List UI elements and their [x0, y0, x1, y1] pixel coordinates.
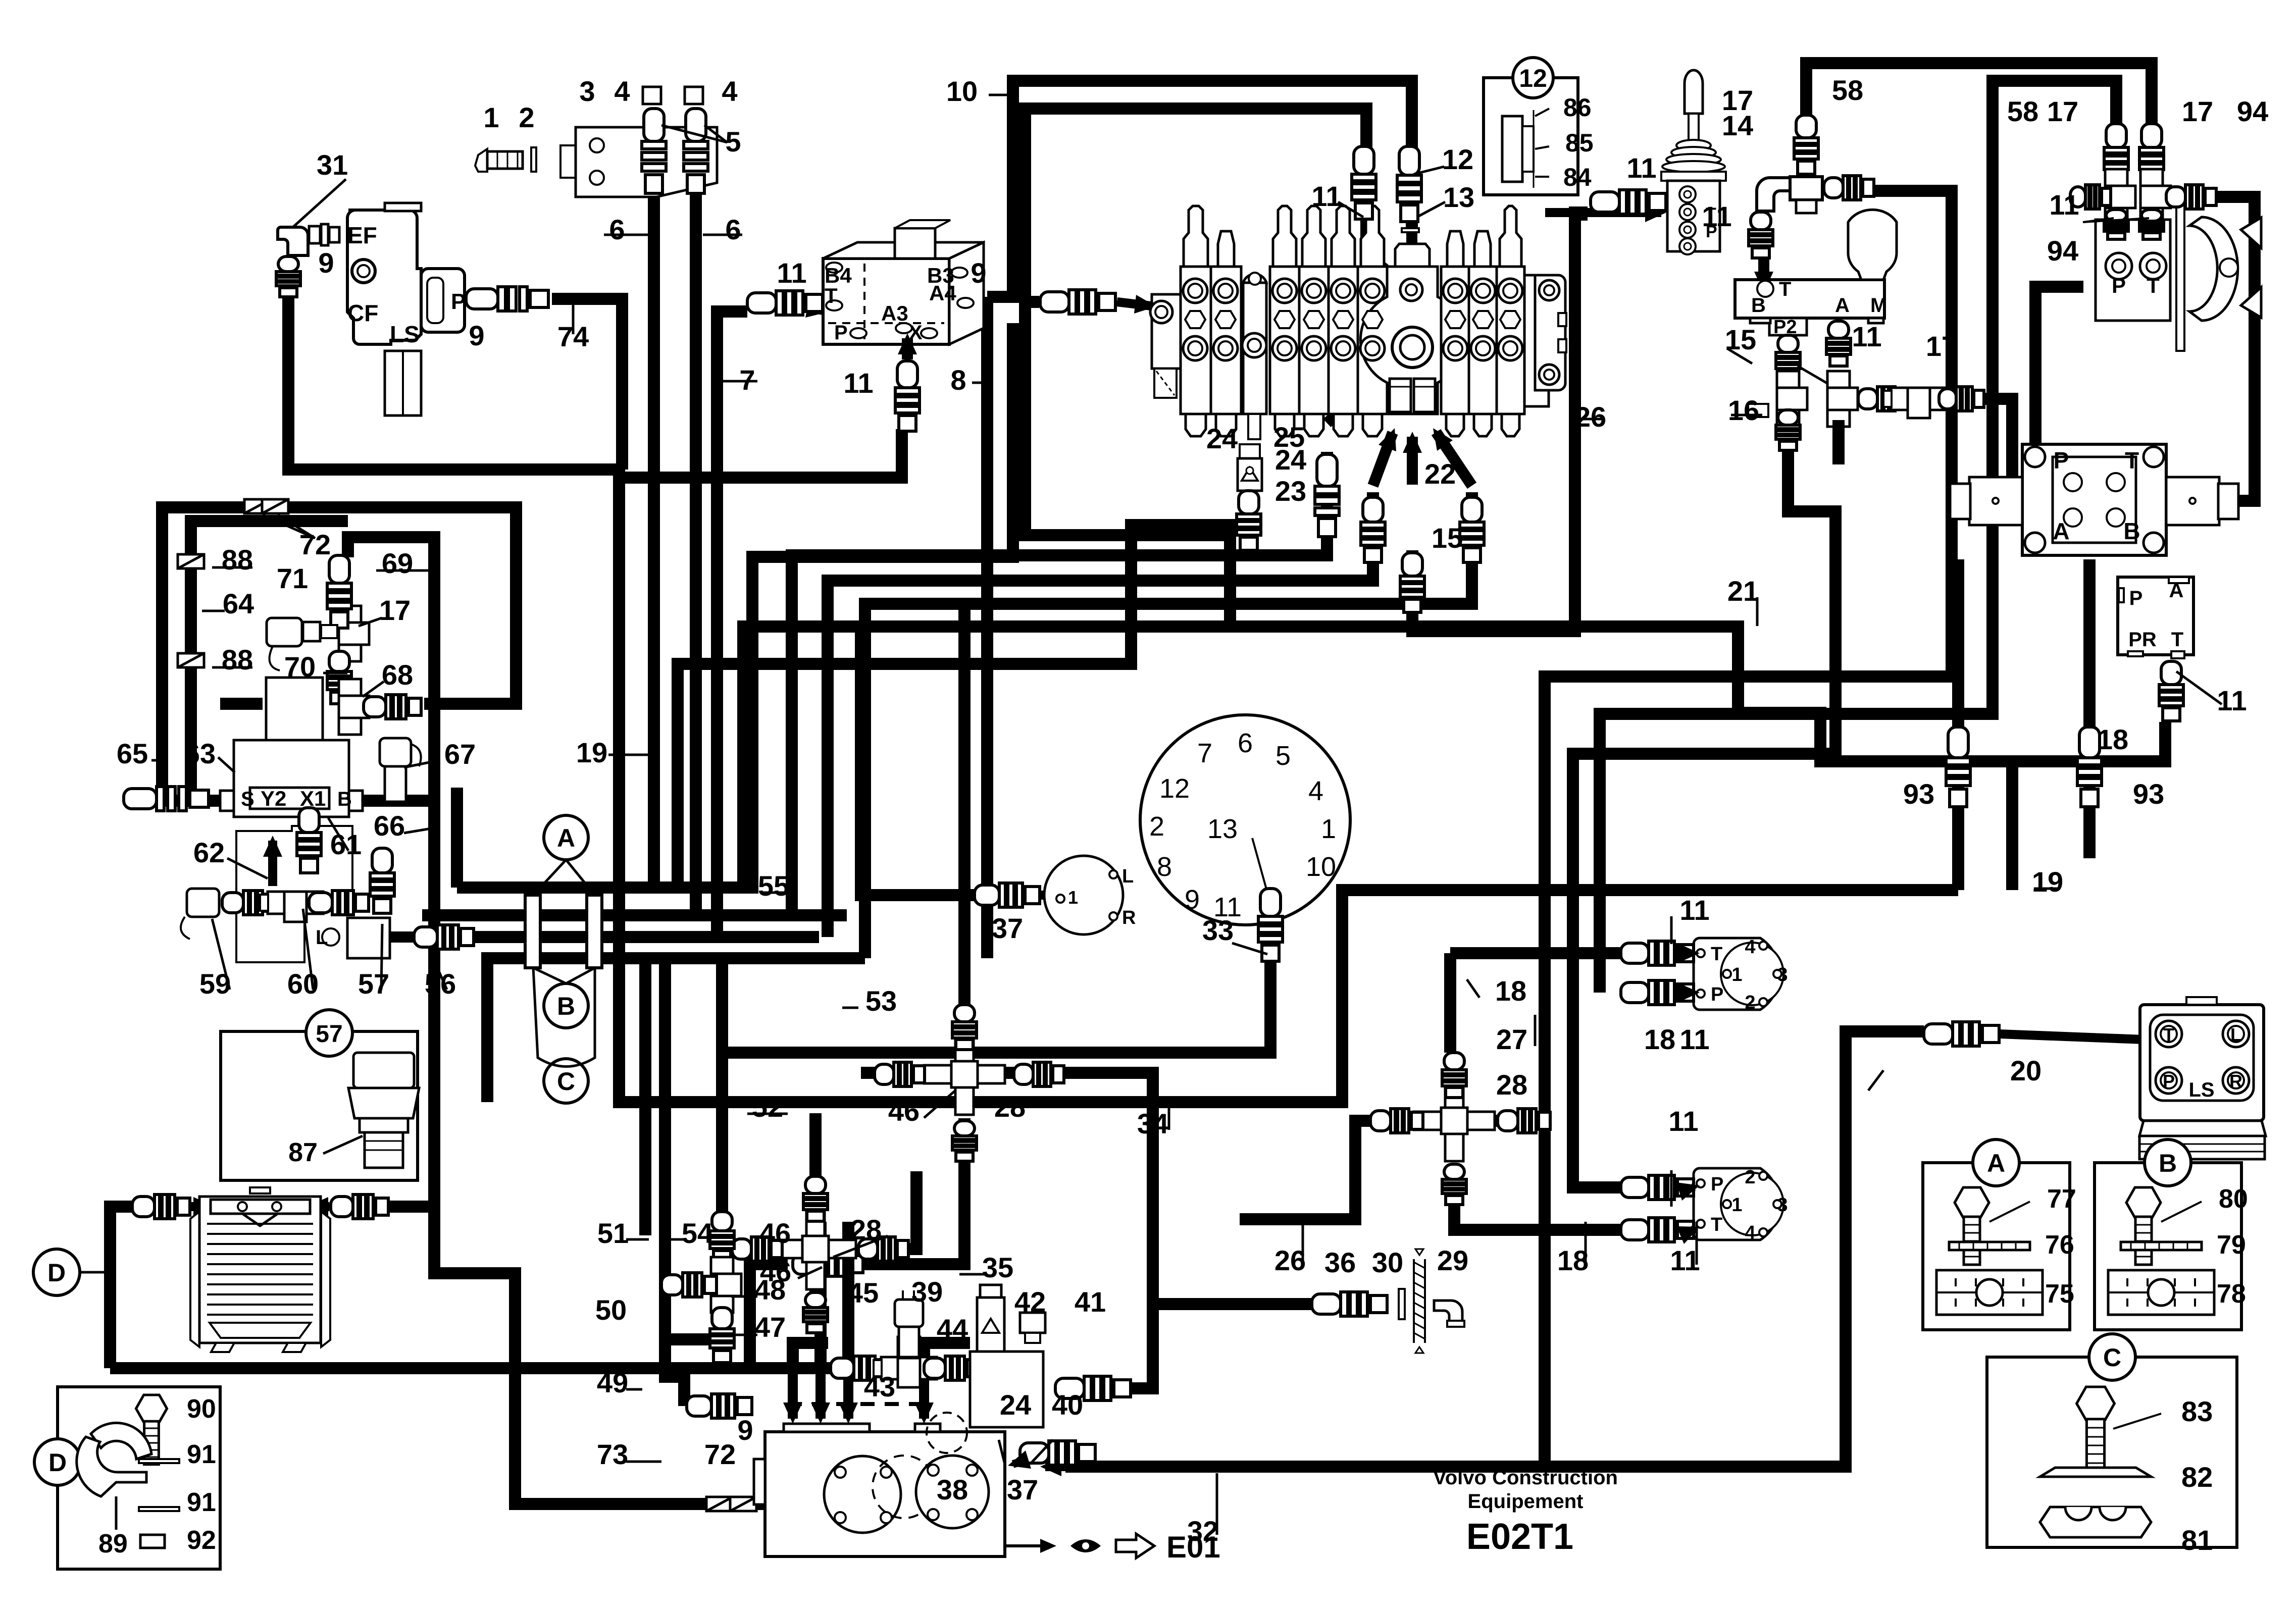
svg-text:93: 93 [1903, 778, 1934, 810]
wire hose 65 loop left [162, 507, 516, 801]
svg-text:69: 69 [382, 547, 413, 579]
wall hatch [1414, 1249, 1425, 1353]
svg-text:73: 73 [597, 1438, 628, 1470]
arrow feeder x1680 [843, 1363, 853, 1419]
gauge clock legend [1140, 715, 1350, 925]
svg-text:66: 66 [374, 810, 405, 842]
svg-text:24: 24 [1000, 1389, 1031, 1421]
svg-text:34: 34 [1137, 1108, 1168, 1139]
svg-text:11: 11 [777, 257, 806, 289]
accumulator [1848, 210, 1897, 280]
svg-text:S: S [241, 788, 254, 810]
fitting cooler right [331, 1194, 388, 1219]
svg-text:6: 6 [609, 214, 625, 245]
arrow into BTAM T port [1758, 241, 1769, 288]
nut 4 left [643, 87, 661, 104]
wire hose 35 left end [750, 1264, 788, 1368]
svg-text:24: 24 [1275, 444, 1306, 476]
svg-text:26: 26 [1274, 1244, 1306, 1276]
wire hose solenoid X to row [621, 429, 902, 478]
svg-text:76: 76 [2045, 1230, 2074, 1260]
arrow feeder x1830 [919, 1363, 929, 1419]
svg-text:A3: A3 [881, 301, 908, 325]
wire hose 54 [665, 958, 722, 1339]
svg-text:11: 11 [2049, 189, 2079, 221]
fitting 40 [1055, 1376, 1131, 1400]
wire hose 10 upper [987, 81, 1412, 297]
wire hose 10 lower big S [743, 109, 1366, 888]
svg-text:22: 22 [1424, 458, 1456, 490]
svg-text:1: 1 [483, 101, 499, 133]
arrow into X [902, 338, 913, 359]
wire hose 17/94 branch down [1545, 191, 1952, 1467]
svg-text:78: 78 [2217, 1279, 2246, 1309]
svg-text:81: 81 [2181, 1524, 2213, 1556]
wire hose D cooler inlet [110, 1207, 135, 1368]
svg-text:30: 30 [1372, 1247, 1403, 1278]
tee 59/60 assembly [181, 889, 219, 939]
svg-text:46: 46 [759, 1217, 791, 1249]
wire hose 36 branch [1153, 1298, 1313, 1310]
fitting 9 at EF [309, 224, 339, 245]
wire hose 74/31 loop priority-valve P to EF [288, 295, 622, 470]
svg-text:71: 71 [277, 562, 308, 594]
check valve 42 [977, 1285, 1004, 1353]
svg-text:94: 94 [2237, 95, 2268, 127]
svg-text:18: 18 [1644, 1023, 1675, 1055]
svg-text:90: 90 [187, 1394, 216, 1424]
wire hose 44 long return line [110, 1362, 831, 1374]
svg-text:88: 88 [222, 644, 253, 676]
elbow 14 [1757, 178, 1790, 211]
wire hose 33 line from 52 [722, 962, 1270, 1053]
svg-text:L: L [2230, 1024, 2241, 1045]
svg-text:T: T [2163, 1024, 2174, 1045]
svg-text:11: 11 [843, 367, 873, 399]
fitting 9 right [1040, 290, 1115, 314]
svg-text:54: 54 [682, 1217, 713, 1249]
svg-text:50: 50 [595, 1294, 627, 1326]
clamps 72 top [244, 499, 271, 513]
svg-text:35: 35 [982, 1252, 1013, 1283]
arrow 15 under valve [1407, 437, 1418, 485]
svg-text:T: T [2171, 629, 2183, 651]
wire hose 55 and bundle row 1 [457, 323, 1013, 888]
svg-text:87: 87 [288, 1138, 318, 1167]
svg-text:4: 4 [614, 75, 630, 107]
svg-text:1: 1 [1731, 964, 1742, 985]
svg-text:60: 60 [287, 968, 319, 1000]
wire cross2 assembly lines [809, 1113, 822, 1212]
gauge target 37 [1044, 856, 1123, 934]
part 87 sensor [348, 1053, 419, 1168]
svg-text:3: 3 [579, 75, 595, 107]
svg-text:16: 16 [1728, 394, 1759, 426]
svg-text:1: 1 [1321, 814, 1336, 844]
svg-text:58: 58 [2007, 95, 2038, 127]
svg-text:Y2: Y2 [261, 787, 286, 810]
svg-text:29: 29 [1437, 1244, 1468, 1276]
tees 17 above wheel [2104, 124, 2128, 186]
svg-text:77: 77 [2047, 1184, 2076, 1214]
fitting 11 below elbow [1749, 212, 1773, 258]
fitting 61 [297, 808, 321, 873]
svg-text:11: 11 [1679, 1023, 1709, 1055]
svg-text:10: 10 [1306, 852, 1336, 882]
svg-text:52: 52 [752, 1091, 783, 1123]
wire hose 94 wheel left [2035, 287, 2083, 444]
wire hose 21 long line to 18 [1230, 627, 2012, 761]
svg-text:A: A [2053, 518, 2069, 544]
svg-text:12: 12 [1519, 64, 1547, 92]
fitting 12 on drop [1397, 146, 1421, 222]
wire hose 58 supply top [1806, 63, 2152, 129]
label leader lines [293, 179, 346, 227]
svg-text:P: P [2112, 274, 2126, 297]
svg-text:12: 12 [1159, 773, 1190, 804]
svg-text:17: 17 [2047, 95, 2078, 127]
svg-text:6: 6 [1238, 728, 1253, 758]
fitting 68 chain [364, 695, 421, 719]
tee 17 at 58 [1790, 177, 1822, 213]
arrow 62 up [268, 841, 277, 886]
wire hose 93b flushing B [2083, 559, 2096, 858]
wire hose 37 gauge line [861, 627, 975, 895]
svg-text:L: L [1122, 866, 1134, 887]
svg-text:13: 13 [1207, 814, 1238, 844]
svg-text:PR: PR [2128, 629, 2157, 651]
svg-text:55: 55 [758, 870, 789, 902]
svg-text:91: 91 [187, 1440, 216, 1469]
svg-text:58: 58 [1832, 74, 1863, 106]
orbitrol steering unit 20 [2139, 997, 2266, 1159]
fitting 9 at P [466, 287, 548, 311]
svg-text:42: 42 [1014, 1286, 1046, 1318]
wire hose 34 to manifold 40 [1131, 1382, 1153, 1394]
svg-text:44: 44 [937, 1313, 968, 1345]
A B C manifold bundle [525, 895, 540, 968]
fitting cooler left [132, 1194, 190, 1219]
fitting 11 lower servo T [1621, 1218, 1694, 1242]
wire hose 94 frame right [2176, 197, 2255, 501]
wire valve drop 15 to hose 26 [1412, 215, 1588, 631]
fitting 15 chain [1400, 553, 1424, 612]
svg-text:92: 92 [187, 1526, 216, 1555]
svg-text:28: 28 [994, 1091, 1026, 1123]
svg-text:2: 2 [1745, 992, 1755, 1013]
svg-text:18: 18 [2097, 723, 2128, 755]
svg-text:5: 5 [725, 126, 741, 158]
svg-text:11: 11 [1626, 152, 1656, 184]
svg-text:C: C [2103, 1343, 2121, 1372]
fitting 33 [1258, 889, 1283, 961]
wire valve drop 22b row [865, 492, 1472, 958]
wire bundle row L 56/60 [457, 931, 819, 943]
wire hose 58b right [1600, 81, 2116, 993]
inset box D [58, 1387, 220, 1569]
svg-text:B: B [557, 992, 575, 1020]
washer 30 [1399, 1289, 1405, 1319]
svg-text:86: 86 [1563, 93, 1592, 122]
svg-text:89: 89 [98, 1529, 128, 1559]
E01 flow arrow [1005, 1544, 1045, 1547]
svg-text:53: 53 [865, 985, 897, 1017]
svg-text:T: T [825, 284, 838, 307]
tee 68 [339, 679, 369, 735]
main control valve bank [1150, 206, 1566, 439]
svg-text:57: 57 [316, 1021, 342, 1048]
svg-text:7: 7 [1197, 738, 1212, 768]
wire hose 18 steering priority [2012, 722, 2165, 890]
arrow into radiator left [191, 1202, 210, 1211]
svg-text:13: 13 [1443, 181, 1474, 213]
svg-text:1: 1 [1731, 1194, 1742, 1216]
svg-text:11: 11 [1668, 1105, 1698, 1137]
stud fittings 5 [642, 109, 666, 193]
svg-text:70: 70 [284, 651, 316, 683]
fitting 22b chain [1460, 497, 1484, 562]
svg-text:11: 11 [1311, 180, 1341, 212]
svg-text:85: 85 [1565, 129, 1594, 157]
svg-text:17: 17 [2182, 95, 2213, 127]
svg-text:62: 62 [193, 837, 225, 868]
arrow into radiator right [312, 1202, 329, 1211]
svg-text:P: P [2129, 587, 2143, 609]
svg-text:51: 51 [597, 1217, 629, 1249]
arrow hose 20 into orbitrol T [2000, 1034, 2156, 1040]
svg-text:D: D [48, 1448, 67, 1477]
svg-text:37: 37 [1007, 1474, 1038, 1505]
svg-text:Volvo Construction: Volvo Construction [1433, 1467, 1618, 1489]
svg-text:28: 28 [1496, 1069, 1527, 1101]
pump assembly [754, 1413, 1005, 1556]
svg-text:4: 4 [722, 75, 737, 107]
svg-text:83: 83 [2181, 1395, 2213, 1427]
fitting 35 chain [793, 1252, 863, 1276]
svg-text:36: 36 [1324, 1247, 1356, 1278]
wire hose 93a flushing A [1952, 559, 1964, 890]
svg-text:17: 17 [379, 594, 411, 626]
fitting 15 at P2 [1776, 335, 1800, 380]
fitting 70 [327, 651, 351, 704]
arrow feeder x1570 [788, 1363, 798, 1419]
arrow into valve big port [1327, 354, 1401, 423]
arrow into wheel P [2111, 243, 2122, 259]
svg-text:R: R [1122, 907, 1136, 928]
svg-text:B: B [2123, 518, 2140, 544]
fitting 24 chain [1237, 491, 1261, 550]
svg-text:49: 49 [597, 1367, 628, 1398]
wire cross3 bottom to lower servo T [1454, 1176, 1621, 1230]
fitting 16 tee below [1777, 371, 1807, 427]
wire hose 68 chain left stub [220, 698, 263, 710]
svg-text:21: 21 [1727, 575, 1759, 607]
wire hose pump feeder 9 [665, 1339, 684, 1406]
svg-text:LS: LS [2188, 1079, 2214, 1101]
cross fitting 46/28 no2 [775, 1209, 856, 1289]
svg-text:A: A [1835, 294, 1850, 317]
wire hose 32 pump to orbitrol 20 [1065, 1031, 1924, 1467]
wire hose 27 cross3 top [1444, 953, 1456, 1053]
svg-text:Equipement: Equipement [1468, 1490, 1584, 1513]
svg-text:64: 64 [223, 588, 254, 619]
wire bundle row 2 [422, 909, 847, 921]
servo block lower [1694, 1168, 1783, 1240]
wire hose 52 [716, 958, 728, 1247]
svg-text:9: 9 [469, 320, 484, 351]
inset box 12 overlay [1484, 78, 1578, 195]
wire valve drop 23/24 to maze row [792, 452, 1327, 915]
svg-text:18: 18 [1495, 975, 1526, 1007]
svg-text:17: 17 [1926, 330, 1957, 362]
svg-text:L: L [316, 926, 328, 949]
svg-text:B: B [1751, 294, 1766, 317]
svg-text:4: 4 [1745, 937, 1755, 958]
fitting 11 lower servo P [1621, 1175, 1694, 1200]
washer 13 [1402, 228, 1419, 232]
svg-text:37: 37 [992, 912, 1023, 944]
svg-text:63: 63 [184, 738, 216, 769]
svg-text:24: 24 [1206, 423, 1238, 454]
QD coupling 71 [267, 618, 337, 670]
svg-text:31: 31 [317, 149, 348, 181]
fitting 11 upper servo P [1621, 980, 1694, 1005]
svg-text:2: 2 [1149, 811, 1164, 842]
bracket 3 [576, 127, 717, 197]
wire step line 16 to lower servo P [1573, 444, 1835, 1187]
wire hose 6 right [690, 194, 702, 915]
wire upper servo T feed from cross [1450, 947, 1622, 959]
wire hose 51 [639, 958, 651, 1235]
fitting 11 to solenoid T [747, 291, 823, 315]
svg-text:CF: CF [347, 300, 378, 326]
wire pilot feeders into pump [788, 1402, 924, 1406]
check valve 24/25 under valve [1238, 444, 1262, 491]
fitting 11 upper servo T [1621, 941, 1694, 965]
fitting 17 pair at A line [1827, 371, 1858, 427]
svg-text:P: P [451, 289, 466, 314]
tee 17 upper with QD 71 [339, 606, 369, 661]
svg-text:32: 32 [1187, 1515, 1218, 1547]
pump control block Y2/X1 [220, 678, 363, 817]
svg-text:91: 91 [187, 1488, 216, 1517]
elbow 29 [1434, 1301, 1462, 1322]
svg-text:D: D [47, 1259, 66, 1287]
wire hose 69/73 line down to cooler return [348, 537, 765, 1504]
elbow 31 [278, 227, 308, 255]
svg-text:10: 10 [946, 75, 978, 107]
steering wheel unit [2096, 189, 2261, 351]
svg-text:B: B [2159, 1149, 2177, 1177]
svg-text:14: 14 [1722, 110, 1753, 141]
svg-text:M: M [1870, 294, 1887, 317]
svg-text:B: B [337, 788, 352, 810]
svg-text:47: 47 [754, 1311, 786, 1343]
svg-text:A: A [1987, 1149, 2005, 1177]
svg-text:9: 9 [318, 247, 334, 279]
tee 44/43/45/39 assembly [831, 1356, 890, 1380]
svg-text:T: T [1779, 278, 1791, 300]
svg-text:72: 72 [704, 1438, 736, 1470]
svg-text:8: 8 [950, 364, 966, 396]
BTAM pilot block [1735, 280, 1884, 318]
arrow into L port [359, 931, 424, 943]
svg-text:T: T [2125, 447, 2139, 474]
wire valve drop 22a to maze row [828, 492, 1373, 937]
arrow to valve center top port [1369, 256, 1403, 284]
arrow 24 pillar port [1249, 358, 1260, 419]
arrow 22b under valve [1436, 432, 1472, 486]
wire hose 26 vertical to joystick [1575, 213, 1588, 631]
wire hose 19 long tank line [619, 470, 1958, 1102]
svg-text:65: 65 [117, 738, 148, 769]
svg-text:T: T [1711, 1214, 1722, 1235]
svg-text:82: 82 [2181, 1461, 2213, 1493]
arrow feeder x1625 [815, 1363, 826, 1419]
fitting 56 [414, 925, 474, 949]
svg-text:75: 75 [2045, 1279, 2074, 1309]
svg-text:E02T1: E02T1 [1466, 1517, 1573, 1557]
manifold block 24/40 [970, 1352, 1043, 1427]
svg-text:P: P [1711, 984, 1723, 1005]
arrow hose 32 into pump [1045, 1462, 1101, 1471]
svg-text:93: 93 [2133, 778, 2164, 810]
svg-text:C: C [557, 1067, 575, 1096]
fitting 38/37 at pump [1020, 1441, 1095, 1465]
fitting 9 feeder [687, 1394, 752, 1418]
svg-text:11: 11 [2217, 685, 2247, 716]
svg-text:11: 11 [1679, 894, 1709, 926]
svg-text:48: 48 [754, 1274, 786, 1306]
svg-text:P: P [834, 322, 848, 344]
svg-text:57: 57 [358, 968, 389, 1000]
fitting chain at S port [124, 787, 209, 811]
svg-text:19: 19 [2032, 866, 2063, 898]
svg-text:T: T [1711, 944, 1722, 965]
arrow into joystick T [1545, 208, 1661, 217]
wire hose 8 to valve inlet [981, 297, 993, 958]
svg-text:R: R [2229, 1071, 2242, 1092]
fitting 11 on drop [1352, 146, 1376, 219]
priority valve EF/CF/LS/P [347, 203, 465, 344]
cross fitting 46/28 no1 [924, 1034, 1005, 1115]
svg-text:94: 94 [2047, 235, 2078, 267]
58 tee assembly [1794, 115, 1818, 174]
svg-text:LS: LS [390, 321, 420, 347]
svg-text:46: 46 [888, 1095, 920, 1127]
cross fitting 28 no3 [1414, 1080, 1495, 1161]
wire hose 6 left [648, 194, 660, 888]
clamp 81 [2040, 1507, 2151, 1537]
inset box B [2095, 1163, 2241, 1330]
fittings 93 [1946, 727, 1970, 807]
svg-text:4: 4 [1745, 1222, 1755, 1243]
svg-text:2: 2 [519, 101, 534, 133]
svg-text:8: 8 [1157, 852, 1172, 882]
svg-text:72: 72 [299, 529, 331, 560]
svg-text:11: 11 [1852, 321, 1881, 352]
wire hose 64 inner [191, 521, 348, 801]
fitting 57 vertical [370, 848, 394, 913]
flushing block P/T A/B [1950, 444, 2238, 555]
svg-text:1: 1 [1068, 887, 1078, 908]
svg-text:9: 9 [971, 257, 986, 289]
fitting 23/24 chain [1315, 454, 1339, 537]
svg-text:39: 39 [911, 1276, 943, 1308]
svg-text:EF: EF [347, 222, 377, 248]
svg-text:15: 15 [1432, 522, 1463, 554]
wire hose 18b cross3 left [1240, 1121, 1414, 1219]
